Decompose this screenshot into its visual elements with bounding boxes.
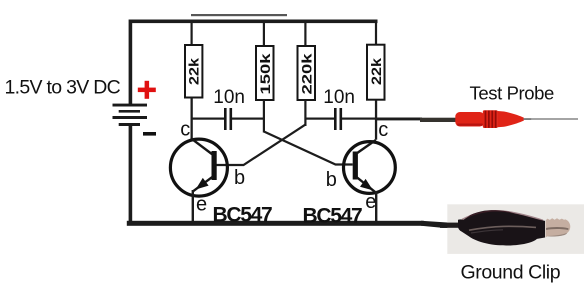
wire: left vertical battery branch (bottom half) [129, 126, 133, 223]
test probe : needle tip [524, 118, 532, 120]
resistor R1 22k : top lead [191, 23, 193, 45]
transistor Q2 : emitter arrow [360, 179, 373, 191]
svg-text:BC547: BC547 [303, 204, 362, 227]
resistor R1 22k : bottom lead down to Q1 collector [191, 98, 193, 139]
resistor R1 22k : body [185, 45, 202, 98]
svg-text:22k: 22k [186, 58, 202, 85]
wire: top supply rail [130, 20, 378, 24]
ground clip : metal jaw with serrated top [546, 218, 571, 237]
svg-text:c: c [378, 119, 388, 141]
resistor R2 150k : top lead [263, 23, 265, 46]
ground clip : jaw seam shading [546, 227, 569, 230]
transistor Q1 BC547 : body circle [170, 139, 227, 196]
transistor Q1 : emitter arrow [196, 178, 209, 190]
wire: coupling row right segment (R3 node to C2) [305, 118, 335, 120]
test probe : ribbed collar [483, 110, 498, 128]
resistor R4 22k : body [367, 45, 385, 100]
svg-text:e: e [365, 191, 376, 213]
resistor R2 150k : body [256, 46, 274, 100]
wire: faint double line artifact on top rail [191, 14, 287, 16]
svg-text:Ground Clip: Ground Clip [461, 262, 561, 284]
resistor R4 22k : bottom lead down to Q2 collector [375, 100, 377, 140]
transistor Q1 : collector stroke [191, 138, 213, 154]
ground clip : photo background patch [447, 204, 584, 254]
transistor Q1 : base bar [212, 151, 217, 180]
svg-text:b: b [326, 169, 337, 191]
battery minus terminal mark [143, 132, 156, 136]
svg-text:Test Probe: Test Probe [470, 82, 555, 103]
wire: coupling row left segment (Q1 collector to C1) [192, 118, 225, 120]
wire: cross-coupling diagonal from R2 node to Q2 base [264, 132, 353, 165]
ground clip : wire stub into clip [447, 223, 459, 228]
ground clip : black rubber boot [458, 210, 545, 245]
resistor R3 220k : body [298, 46, 316, 100]
svg-text:c: c [180, 119, 190, 141]
transistor Q2 : collector stroke [357, 140, 376, 154]
transistor Q1 : emitter stroke [193, 177, 213, 192]
resistor R3 220k : top lead [304, 23, 306, 46]
svg-text:22k: 22k [368, 58, 384, 85]
svg-text:10n: 10n [213, 87, 245, 108]
svg-text:1.5V to 3V DC: 1.5V to 3V DC [5, 77, 121, 99]
svg-text:BC547: BC547 [213, 204, 272, 227]
resistor R4 22k : top lead [375, 23, 377, 45]
ground clip : jaw lower shading [547, 233, 567, 237]
wire: left vertical battery branch (top half) [129, 20, 133, 105]
svg-text:e: e [196, 194, 207, 216]
test probe : tapered nose cone [498, 111, 524, 127]
transistor Q2 : emitter stroke [357, 177, 376, 192]
battery BT1 [113, 104, 148, 126]
transistor Q2 : base bar [353, 152, 358, 180]
capacitor C2 10n : plates [334, 108, 337, 130]
wire: C2 to Q2 collector node and on toward probe [342, 118, 422, 120]
wire: Q2 emitter down to ground rail [375, 191, 377, 222]
test probe : photo wire [420, 118, 457, 122]
wire: Q1 emitter down to ground rail [192, 190, 194, 222]
transistor Q2 BC547 : body circle [344, 142, 396, 194]
svg-text:b: b [234, 167, 245, 189]
wire: probe lead from Q2 collector node [377, 118, 422, 120]
ground clip : lower ridge shadow [471, 230, 503, 233]
test probe : red barrel [455, 112, 484, 127]
resistor R3 220k : bottom lead [304, 100, 306, 126]
ground clip : maroon sheen on boot top [462, 211, 543, 221]
svg-text:220k: 220k [298, 53, 314, 94]
wire: cross-coupling diagonal from R3 node to Q1 base [217, 125, 306, 165]
ground clip : gray highlight streak [469, 226, 536, 230]
resistor R2 150k : bottom lead [263, 100, 265, 133]
wire: C1 to R2 node [232, 118, 265, 120]
svg-text:10n: 10n [323, 87, 355, 108]
capacitor C1 10n : plates [224, 108, 227, 130]
svg-text:150k: 150k [257, 53, 273, 94]
battery plus terminal mark [138, 81, 156, 99]
wire: bottom ground rail [127, 221, 424, 226]
